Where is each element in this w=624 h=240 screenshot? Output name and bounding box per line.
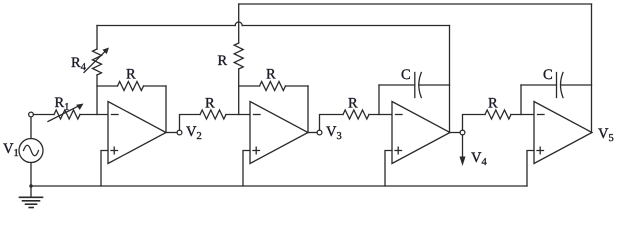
resistor R (series stage 4) (485, 110, 511, 119)
op-amp U3 (392, 102, 450, 164)
label V1 (3, 144, 18, 156)
wire U3 output to node V4 (450, 132, 460, 134)
wire V3 jog up to stage-3 series resistor (320, 115, 344, 131)
label C (feedback U3) (402, 69, 410, 79)
label V4 (471, 153, 486, 165)
op-amp U2 (250, 102, 308, 164)
wire input node to R1 (33, 114, 54, 116)
node V2 (177, 130, 182, 135)
wire stage-1 summing column (x=97): bus2 down to R4 (96, 26, 98, 50)
wire U1 output to node V2 (166, 132, 177, 134)
node junction dot at ground rail / source column (29, 184, 32, 187)
ground (20, 197, 43, 207)
wire U2 output to node V3 (308, 132, 317, 134)
wire V4 jog up to stage-4 series resistor (463, 115, 486, 131)
wire U1 noninverting input to ground rail (101, 151, 108, 187)
op-amp U4 (534, 102, 592, 164)
wire stage-4 feedback left column (520, 85, 522, 115)
wire V2 jog up to stage-2 series resistor (180, 115, 201, 131)
source V1 (AC sine source) (19, 117, 43, 197)
resistor R (series stage 2) (200, 110, 226, 119)
wire series R to U2 inverting input (226, 114, 250, 116)
wire U2 noninverting input to ground rail (243, 151, 250, 187)
wire top bus down to U4 output (x=591.5) (591, 4, 593, 133)
resistor R (vertical, stage-2 from V5 bus) (234, 43, 243, 69)
resistor R (feedback U2) (239, 82, 308, 91)
label V3 (326, 127, 341, 140)
label V5 (598, 129, 613, 142)
label R (series stage 2) (205, 98, 214, 107)
wire R1 to op-amp U1 inverting input (through summing node x=97) (80, 114, 108, 116)
wire R4 bottom to inverting node (96, 75, 98, 115)
capacitor C (feedback U4) (521, 73, 592, 98)
wire bottom ground rail (31, 185, 527, 187)
op-amp U1 (108, 102, 166, 164)
wire stage-2 summing column (x=239): top bus down through R to input (238, 4, 240, 43)
resistor R1 (variable, series input) (48, 104, 84, 122)
resistor R (series stage 3) (343, 110, 369, 119)
label C (feedback U4) (544, 69, 552, 79)
arrow V4 (output current arrow) (460, 135, 466, 166)
resistor R4 (variable, vertical) (84, 48, 109, 75)
wire feedback U2 down to output (307, 86, 309, 133)
node input terminal circle (29, 112, 34, 117)
resistor R (feedback U1) (97, 82, 166, 91)
label R (series stage 3) (348, 98, 357, 107)
label R (vertical stage 2) (218, 56, 227, 65)
node V3 (317, 130, 322, 135)
node V4 (460, 130, 465, 135)
label R (feedback U2) (266, 69, 275, 78)
wire feedback U1 down to output (165, 86, 167, 133)
wire vertical R bottom to inverting node (238, 69, 240, 115)
wire series R to U3 inverting input (369, 114, 392, 116)
wire series R to U4 inverting input (511, 114, 534, 116)
capacitor C (feedback U3) (379, 73, 450, 98)
label R4 (71, 58, 85, 70)
label R (series stage 4) (488, 98, 497, 107)
label R (feedback U1) (126, 69, 135, 78)
wire stage-3 feedback left column (378, 85, 380, 115)
label V2 (186, 127, 201, 139)
wire top feedback bus (V5 to stage-2 summing column) (239, 3, 592, 5)
wire U3 noninverting input to ground rail (385, 151, 392, 187)
wire bus2 down to U3 output (x=449.5) (449, 26, 451, 133)
wire second feedback bus (V4 to R4 column) with hop over x=239 (97, 22, 450, 25)
wire U4 noninverting input to ground rail (527, 151, 534, 187)
label R1 (55, 98, 69, 110)
